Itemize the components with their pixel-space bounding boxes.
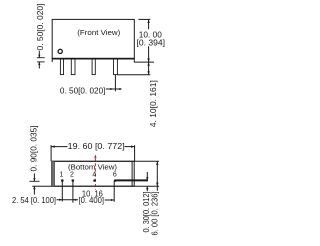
dimension 0.30: upper arrow at pin row bbox=[146, 172, 148, 180]
dimension 4.10: pin bottom extension line bbox=[118, 74, 151, 76]
dimension 0.90: left tick at pin row bbox=[29, 180, 39, 182]
dimension 0.50 standoff: lower arrow line bbox=[38, 62, 40, 69]
dimension 0.50 pin width: extension line from pin 6 bbox=[114, 75, 116, 92]
dimension 10.00: top extension line bbox=[138, 18, 150, 20]
bottom view top edge extended right bbox=[52, 160, 159, 162]
svg-text:2. 54 [0. 100]: 2. 54 [0. 100] bbox=[12, 196, 56, 205]
pin 6 dot bbox=[114, 179, 117, 182]
pin 2 (front view) bbox=[71, 58, 75, 74]
dimension 19.60: right extension line bbox=[134, 145, 136, 161]
pin 1 dot bbox=[61, 179, 64, 182]
svg-text:(Bottom View): (Bottom View) bbox=[68, 163, 117, 172]
svg-text:0. 50[0. 020]: 0. 50[0. 020] bbox=[36, 4, 45, 51]
dimension 2.54: dim line with outside arrows bbox=[57, 199, 79, 201]
svg-text:19. 60 [0. 772]: 19. 60 [0. 772] bbox=[68, 142, 125, 151]
dimension 10.16: right dim line with arrow bbox=[105, 199, 115, 201]
standoff stub right corner bbox=[133, 58, 135, 62]
svg-text:1: 1 bbox=[60, 171, 64, 178]
bottom view body outline bbox=[52, 161, 134, 186]
svg-text:0. 90[0. 035]: 0. 90[0. 035] bbox=[30, 126, 39, 172]
pin 2 dot bbox=[72, 179, 75, 182]
pin 6 (front view) bbox=[114, 58, 118, 74]
pin 1 (front view) bbox=[60, 58, 63, 74]
dimension 10.00: standoff extension line bbox=[134, 61, 154, 63]
pin 4 (front view) bbox=[92, 58, 95, 74]
pin 1 marker circle bbox=[58, 49, 62, 53]
dimension 0.90: upper arrow bbox=[33, 173, 35, 181]
dimension 6.00: dim line with arrows bbox=[156, 161, 158, 191]
dimension 10.00: lower dim line with down arrow bbox=[148, 46, 150, 62]
dimension 19.60: left extension line bbox=[50, 145, 52, 161]
bottom view bottom edge extended both sides bbox=[32, 185, 159, 187]
front view thick bottom edge bbox=[52, 58, 135, 60]
dimension 0.50 standoff: lower tick bbox=[37, 61, 45, 63]
red centerline (bottom view) bbox=[94, 154, 96, 158]
dimension 4.10: dim line with arrows bbox=[148, 62, 150, 75]
dimension 0.50 pin width: arrowheads bbox=[110, 88, 113, 90]
svg-text:6. 00 [0. 236]: 6. 00 [0. 236] bbox=[151, 192, 160, 236]
pin 4 dot bbox=[93, 179, 96, 182]
svg-text:6: 6 bbox=[113, 171, 117, 178]
pin 2 extension line down bbox=[72, 181, 74, 203]
svg-text:0. 50[0. 020]: 0. 50[0. 020] bbox=[60, 86, 106, 95]
pin 1 extension line down bbox=[61, 181, 63, 202]
pin 6 extension line down bbox=[113, 181, 115, 202]
dimension 0.50 standoff: upper tick bbox=[37, 57, 45, 59]
dimension 0.50 pin width: leader line bbox=[106, 88, 122, 90]
dimension 10.00: upper dim line with up arrow bbox=[148, 19, 150, 29]
standoff stub left corner bbox=[51, 58, 53, 62]
bottom view right inner line bbox=[131, 161, 133, 186]
bottom view left edge thick double line bbox=[51, 161, 54, 186]
svg-text:4. 10[0. 161]: 4. 10[0. 161] bbox=[149, 80, 158, 127]
dimension 19.60: dim line segments with arrows bbox=[51, 146, 67, 148]
svg-text:[0. 394]: [0. 394] bbox=[137, 38, 166, 47]
dimension 0.90: lower arrow bbox=[33, 186, 35, 194]
svg-text:[0. 400]: [0. 400] bbox=[79, 196, 105, 205]
svg-text:4: 4 bbox=[92, 171, 96, 178]
dimension 0.30: lower arrow bbox=[146, 186, 148, 191]
pin row thick leader line bbox=[116, 179, 148, 181]
dimension 0.50 standoff: upper arrow line bbox=[38, 51, 40, 58]
front view body outline bbox=[52, 19, 134, 58]
svg-text:2: 2 bbox=[70, 171, 74, 178]
svg-text:(Front View): (Front View) bbox=[77, 28, 120, 37]
